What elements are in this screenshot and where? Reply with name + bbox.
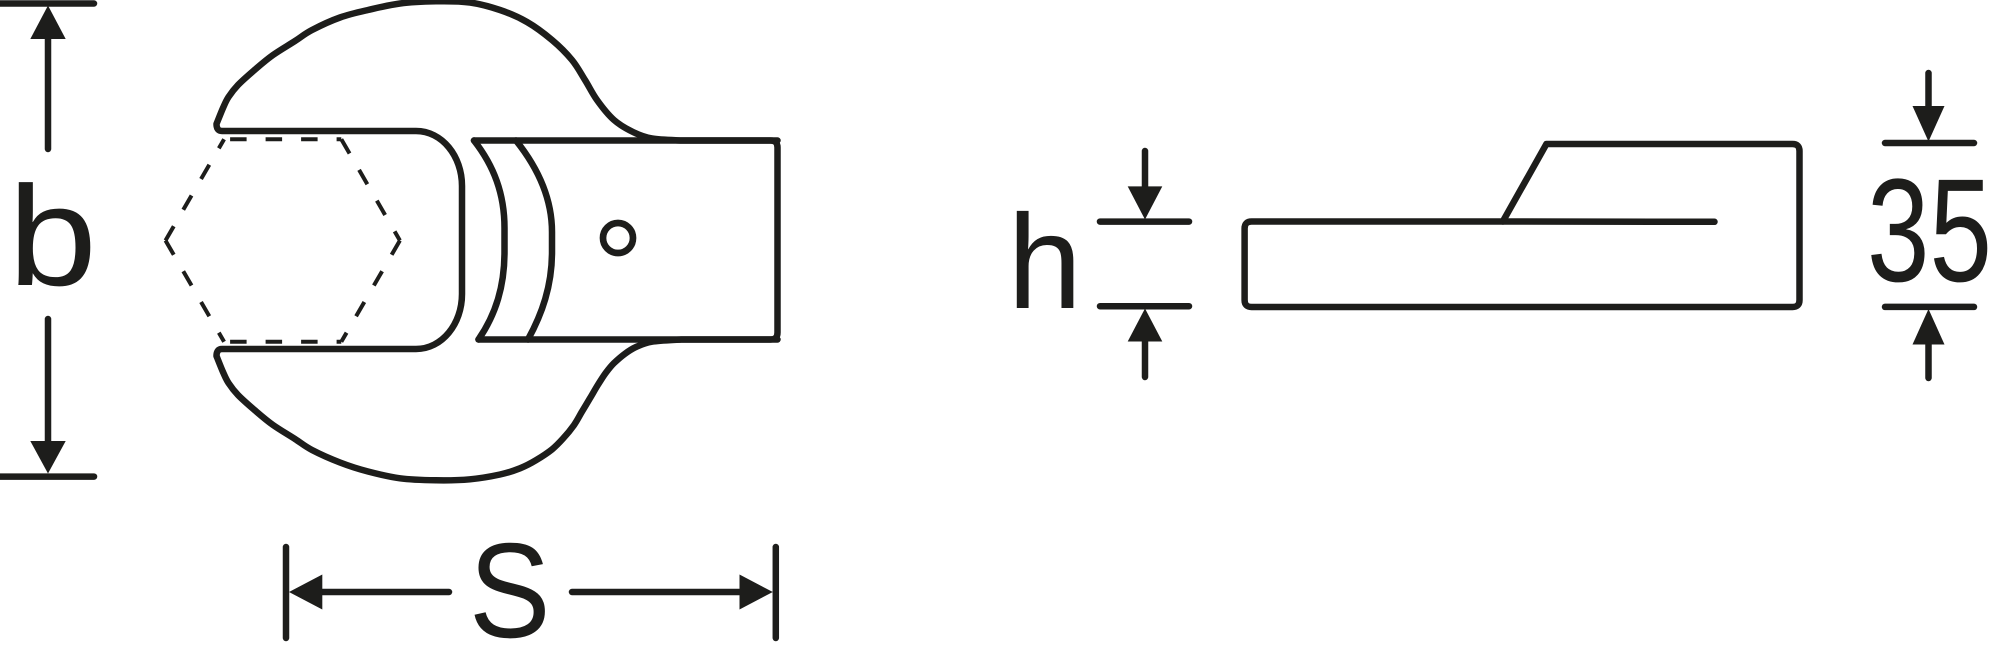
collar arc 2 [516, 141, 552, 340]
dimension S: left tick [283, 547, 290, 638]
arrowhead S left (left) [289, 575, 322, 610]
dashed hexagon (nut) [166, 139, 400, 342]
side view inner top-surface line [1503, 218, 1715, 225]
svg-text:S: S [469, 515, 551, 666]
arrowhead b bottom (down) [30, 441, 65, 474]
dimension 35: bottom line [1885, 304, 1974, 311]
svg-text:b: b [8, 157, 97, 316]
shank rectangle bottom edge [479, 336, 778, 343]
dimension 35: top line [1885, 140, 1974, 147]
dimension b: bottom tick [0, 473, 94, 480]
hexagon edge top [224, 137, 341, 141]
dimension 35: bottom arrow shaft [1925, 343, 1932, 378]
hexagon edge upper-right [341, 139, 400, 240]
arrowhead b top (up) [30, 6, 65, 40]
svg-text:h: h [1008, 188, 1083, 337]
hexagon edge lower-right [341, 241, 400, 342]
dimension S: left shaft [322, 589, 449, 596]
hexagon edge lower-left [166, 241, 225, 342]
dimension b: top shaft [45, 37, 52, 149]
svg-text:35: 35 [1867, 149, 1992, 313]
dimension 35: top arrow shaft [1925, 73, 1932, 108]
dimension b: top tick [0, 0, 94, 7]
dimension S: right shaft [572, 589, 740, 596]
shank rectangle top edge [474, 137, 778, 144]
dimension h: bottom arrow shaft [1142, 341, 1149, 377]
dimension b: bottom shaft [45, 319, 52, 443]
pin hole [603, 223, 633, 253]
dimension h: bottom line [1100, 303, 1189, 310]
arrowhead h top (down) [1128, 186, 1163, 219]
dimension h: top arrow shaft [1142, 151, 1149, 188]
side view outline [1245, 144, 1800, 307]
hexagon edge upper-left [166, 139, 225, 240]
arrowhead h bottom (up) [1128, 309, 1163, 342]
hexagon edge bottom [224, 340, 341, 344]
wrench head outline (top view) [217, 1, 778, 480]
arrowhead 35 top (down) [1913, 106, 1945, 142]
arrowhead 35 bottom (up) [1913, 309, 1945, 345]
arrowhead S right (right) [740, 575, 773, 610]
dimension h: top line [1100, 218, 1189, 225]
collar arc 1 [474, 141, 505, 340]
dimension S: right tick [773, 547, 780, 638]
